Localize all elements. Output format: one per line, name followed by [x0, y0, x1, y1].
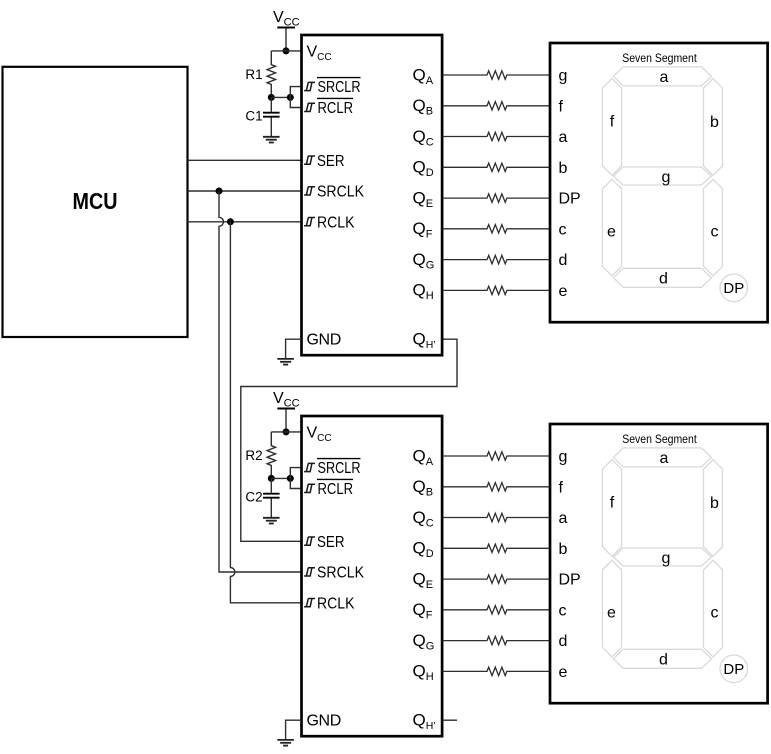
- Vcc supply symbol (R1 net): [273, 9, 300, 51]
- series resistor R2c on QC line: [443, 513, 551, 521]
- svg-text:Seven Segment: Seven Segment: [622, 434, 697, 446]
- svg-text:e: e: [559, 664, 568, 681]
- wire SRCLR/RCLR stub: [290, 87, 301, 108]
- decimal point DP (DS1): [720, 274, 748, 302]
- svg-text:d: d: [559, 633, 568, 650]
- wire RCLK: MCU to U1 RCLK: [188, 221, 302, 223]
- svg-text:GND: GND: [307, 332, 341, 349]
- svg-text:RCLR: RCLR: [318, 481, 354, 498]
- Vcc supply symbol (R2 net): [273, 390, 300, 432]
- wire GND pin (U2): [286, 720, 302, 740]
- svg-text:g: g: [559, 449, 568, 466]
- svg-text:SER: SER: [317, 534, 345, 551]
- svg-text:SRCLK: SRCLK: [317, 184, 364, 201]
- segment e (DS1): [603, 179, 622, 276]
- svg-text:RCLK: RCLK: [317, 595, 355, 612]
- svg-text:DP: DP: [723, 280, 744, 297]
- segment a (DS2): [614, 448, 712, 467]
- segment c (DS2): [704, 560, 723, 657]
- node stub junction: [287, 94, 294, 101]
- wire QH' stub (U2, unconnected): [443, 719, 458, 721]
- resistor R1: [267, 51, 275, 98]
- segment b (DS1): [704, 79, 723, 176]
- shift register U2 box: [302, 416, 443, 736]
- svg-text:b: b: [559, 160, 568, 177]
- pin SER (U1) with clock icon: [304, 153, 344, 170]
- svg-text:a: a: [660, 69, 669, 86]
- svg-text:DP: DP: [559, 191, 581, 208]
- svg-text:c: c: [559, 602, 567, 619]
- segment d (DS1): [614, 268, 712, 287]
- series resistor R2e on QE line: [443, 575, 551, 583]
- seven segment display DS2 box: [550, 424, 768, 703]
- node Vcc junction: [283, 47, 290, 54]
- svg-text:DP: DP: [559, 572, 581, 589]
- svg-text:a: a: [559, 129, 568, 146]
- ground (C1): [263, 137, 280, 143]
- node RCLK junction: [227, 218, 234, 225]
- segment d (DS2): [614, 649, 712, 668]
- svg-text:b: b: [710, 114, 719, 131]
- pin RCLK (U1) with clock icon: [304, 214, 355, 231]
- wire Vcc pin: [271, 50, 301, 52]
- pin RCLR (U1) with clock icon and overline: [304, 98, 353, 117]
- node R2/C2 junction: [268, 475, 275, 482]
- svg-text:RCLR: RCLR: [318, 100, 354, 117]
- svg-text:d: d: [659, 651, 668, 668]
- svg-text:SRCLK: SRCLK: [317, 565, 364, 582]
- segment f (DS1): [603, 79, 622, 176]
- node R1/C1 junction: [268, 94, 275, 101]
- segment g (DS2): [614, 548, 712, 567]
- svg-text:e: e: [607, 224, 616, 241]
- node stub junction: [287, 475, 294, 482]
- svg-text:e: e: [607, 605, 616, 622]
- pin SRCLR (U2) with clock icon and overline: [304, 459, 360, 478]
- series resistor R1f on QF line: [443, 225, 551, 233]
- svg-text:c: c: [711, 224, 719, 241]
- wire RCLK vertical to U2 (hops over SRCLK2 wire): [230, 222, 301, 603]
- svg-text:DP: DP: [723, 661, 744, 678]
- capacitor C1: [245, 97, 279, 136]
- shift register U1 box: [302, 35, 443, 355]
- MCU block: [3, 67, 188, 337]
- svg-text:e: e: [559, 283, 568, 300]
- svg-text:g: g: [662, 550, 671, 567]
- node Vcc junction: [283, 428, 290, 435]
- segment c (DS1): [704, 179, 723, 276]
- series resistor R2a on QA line: [443, 452, 551, 460]
- series resistor R1g on QG line: [443, 255, 551, 263]
- series resistor R1a on QA line: [443, 71, 551, 79]
- svg-text:SRCLR: SRCLR: [318, 79, 361, 96]
- pin SRCLK (U2) with clock icon: [304, 565, 364, 582]
- series resistor R2h on QH line: [443, 667, 551, 675]
- segment g (DS1): [614, 167, 712, 186]
- wire SRCLK: MCU to U1 SRCLK: [188, 190, 302, 192]
- series resistor R1d on QD line: [443, 163, 551, 171]
- segment f (DS2): [603, 460, 622, 557]
- svg-text:f: f: [559, 479, 564, 496]
- series resistor R1h on QH line: [443, 286, 551, 294]
- segment b (DS2): [704, 460, 723, 557]
- svg-text:f: f: [559, 98, 564, 115]
- node SRCLK junction: [216, 188, 223, 195]
- series resistor R1b on QB line: [443, 102, 551, 110]
- svg-text:RCLK: RCLK: [317, 214, 355, 231]
- wire junction to clear pins stub: [271, 96, 290, 98]
- svg-text:SRCLR: SRCLR: [318, 460, 361, 477]
- pin SER (U2) with clock icon: [304, 534, 344, 551]
- wire Vcc pin: [271, 431, 301, 433]
- decimal point DP (DS2): [720, 655, 748, 683]
- capacitor C2: [245, 478, 279, 517]
- svg-text:c: c: [559, 221, 567, 238]
- ground (GND pin U2): [277, 740, 294, 746]
- wire GND pin (U1): [286, 339, 302, 359]
- svg-text:C1: C1: [245, 109, 262, 124]
- svg-text:C2: C2: [245, 490, 262, 505]
- svg-text:d: d: [559, 252, 568, 269]
- wire SER: MCU to U1 SER: [188, 159, 302, 161]
- resistor R2: [267, 432, 275, 479]
- svg-text:a: a: [559, 510, 568, 527]
- wire SRCLK vertical to U2 (hops over RCLK wire): [219, 191, 302, 572]
- pin RCLR (U2) with clock icon and overline: [304, 479, 353, 498]
- svg-text:d: d: [659, 270, 668, 287]
- series resistor R2f on QF line: [443, 606, 551, 614]
- segment a (DS1): [614, 67, 712, 86]
- svg-text:c: c: [711, 605, 719, 622]
- svg-text:R1: R1: [245, 67, 262, 82]
- svg-text:Seven Segment: Seven Segment: [622, 53, 697, 65]
- wire junction to clear pins stub: [271, 477, 290, 479]
- svg-text:f: f: [610, 495, 615, 512]
- svg-text:g: g: [559, 68, 568, 85]
- series resistor R2d on QD line: [443, 544, 551, 552]
- pin SRCLK (U1) with clock icon: [304, 184, 364, 201]
- seven segment display DS1 box: [550, 43, 768, 322]
- pin RCLK (U2) with clock icon: [304, 595, 355, 612]
- ground (C2): [263, 518, 280, 524]
- svg-text:b: b: [710, 495, 719, 512]
- svg-text:f: f: [610, 114, 615, 131]
- wire QH' of U1 to SER of U2: [241, 339, 457, 541]
- svg-text:g: g: [662, 169, 671, 186]
- series resistor R1e on QE line: [443, 194, 551, 202]
- svg-text:GND: GND: [307, 713, 341, 730]
- wire SRCLR/RCLR stub: [290, 468, 301, 489]
- segment e (DS2): [603, 560, 622, 657]
- pin SRCLR (U1) with clock icon and overline: [304, 78, 360, 97]
- svg-text:b: b: [559, 541, 568, 558]
- svg-text:MCU: MCU: [73, 188, 118, 214]
- ground (GND pin U1): [277, 359, 294, 365]
- series resistor R2g on QG line: [443, 636, 551, 644]
- svg-text:a: a: [660, 450, 669, 467]
- series resistor R1c on QC line: [443, 132, 551, 140]
- svg-text:SER: SER: [317, 153, 345, 170]
- svg-text:R2: R2: [245, 448, 262, 463]
- series resistor R2b on QB line: [443, 483, 551, 491]
